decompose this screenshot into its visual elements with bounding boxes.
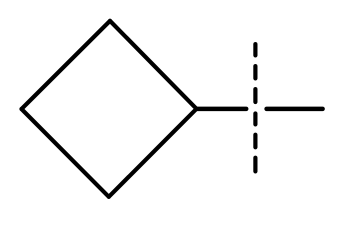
cyclobutane ring bond: right vertex to bottom vertex xyxy=(109,109,197,197)
attachment-point dashed line, dash 6 xyxy=(253,158,257,172)
exocyclic bond, segment left of dashed attachment line xyxy=(197,107,247,112)
attachment-point dashed line, dash 4 xyxy=(253,114,257,125)
attachment-point dashed line, dash 2 xyxy=(253,66,257,78)
cyclobutane ring bond: bottom vertex to left vertex xyxy=(22,109,109,197)
attachment-point dashed line, dash 3 xyxy=(253,89,257,102)
exocyclic bond, segment right of dashed attachment line xyxy=(267,107,323,112)
attachment-point dashed line, dash 5 xyxy=(253,135,257,148)
cyclobutane ring bond: left vertex to top vertex xyxy=(22,21,111,109)
attachment-point dashed line, dash 1 xyxy=(253,44,257,55)
cyclobutane ring bond: top vertex to right vertex xyxy=(110,21,197,109)
